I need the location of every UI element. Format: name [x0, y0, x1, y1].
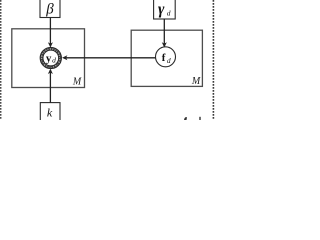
svg-text:k: k: [47, 106, 53, 120]
svg-text:y: y: [46, 52, 52, 64]
svg-text:M: M: [191, 76, 201, 87]
svg-text:d: d: [52, 56, 56, 65]
arrowhead into f_d (top): [162, 42, 167, 47]
arrowhead into y_d (top): [48, 42, 53, 47]
node gamma_d (box, cropped at top): [154, 0, 176, 19]
wire k to y_d: [49, 70, 51, 103]
svg-text:d: d: [167, 56, 171, 65]
wire f_d to y_d: [64, 57, 156, 59]
dashed figure border left: [0, 0, 2, 120]
dashed figure border right: [212, 0, 214, 120]
node f_d: [156, 47, 176, 67]
arrowhead into y_d (bottom): [48, 69, 53, 74]
arrowhead into y_d (right): [62, 55, 67, 60]
node y_d (observed, shaded ring): [40, 47, 61, 68]
plate M (right): [131, 30, 202, 86]
wire beta to y_d: [49, 18, 51, 47]
svg-text:γ: γ: [158, 1, 165, 18]
node beta (box, cropped at top): [40, 0, 60, 18]
svg-text:β: β: [45, 1, 54, 17]
svg-text:M: M: [72, 77, 82, 88]
cropped caption mark 1 (bottom): [184, 117, 187, 120]
cropped caption mark 2 (bottom): [199, 117, 200, 120]
svg-text:d: d: [167, 9, 171, 18]
plate M (left): [12, 29, 85, 88]
node k (box, cropped at bottom): [40, 103, 60, 125]
svg-text:f: f: [162, 52, 166, 64]
wire gamma_d to f_d: [163, 19, 165, 46]
